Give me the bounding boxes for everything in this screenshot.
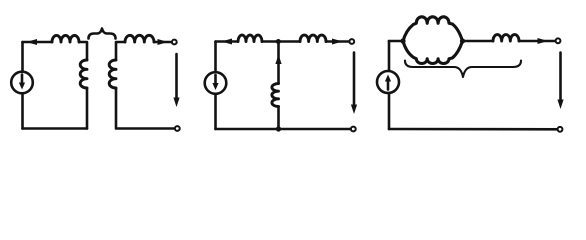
- node B (junction dot, right of parallel pair): [460, 38, 465, 43]
- output arrow (down): [353, 53, 356, 107]
- terminal (bottom right, open circle): [175, 126, 180, 131]
- node (junction dot, top): [276, 39, 281, 44]
- inductor L1-M (top left): [238, 35, 262, 41]
- wire: secondary coil top to top wire of right loop: [116, 42, 125, 60]
- wire: top-right corner of left loop: [79, 42, 87, 60]
- wire: top wire of left loop: [23, 41, 53, 44]
- wire: lens to series coil: [463, 40, 494, 43]
- terminal (top right, open circle): [556, 38, 561, 43]
- output arrow (down): [559, 53, 562, 102]
- terminal (bottom right, open circle): [558, 127, 563, 132]
- inductor (top, right loop): [125, 35, 154, 42]
- wire: top wire to first coil: [216, 40, 239, 43]
- current arrow i1 (pointing left): [26, 39, 37, 45]
- wire: bottom wire of left loop: [23, 127, 88, 130]
- coupling brace M (overbrace between coils): [89, 29, 116, 39]
- inductor (top, left loop): [52, 35, 79, 42]
- wire: left rail top: [388, 41, 391, 71]
- wire: coil1 to coil2 through node: [262, 40, 300, 43]
- inductor L2-M (top right): [300, 35, 326, 41]
- wire: bottom wire: [216, 128, 351, 131]
- current arrow i2 (pointing right): [158, 39, 169, 45]
- inductor (primary vertical coil): [80, 60, 87, 88]
- wire: left rail bottom: [214, 94, 217, 129]
- terminal (top right, open circle): [172, 40, 177, 45]
- wire: left rail bottom: [21, 93, 24, 128]
- inductor M (shunt vertical coil): [272, 84, 279, 107]
- current source I1: [205, 72, 227, 94]
- wire: series coil to top terminal: [519, 40, 555, 43]
- current arrow (pointing right): [538, 38, 549, 44]
- node (junction dot, bottom): [276, 126, 281, 131]
- current source I1: [11, 72, 33, 94]
- terminal (top right, open circle): [349, 39, 354, 44]
- wire: bottom wire: [389, 128, 557, 131]
- wire: left rail bottom: [388, 93, 391, 129]
- wire: shunt branch upper segment: [277, 42, 280, 84]
- wire: top wire to lens node: [389, 40, 403, 43]
- inductor (upper of parallel pair): [403, 17, 463, 41]
- wire: shunt branch lower segment: [277, 107, 280, 130]
- current source I1 (arrow up): [377, 71, 399, 93]
- wire: secondary bottom + bottom wire of right loop: [116, 88, 174, 129]
- current arrow i1 (pointing left): [222, 39, 233, 45]
- wire: primary coil to bottom: [86, 88, 89, 129]
- output arrow (down): [175, 54, 178, 99]
- wire: coil2 to top terminal: [326, 40, 349, 43]
- branch arrow (pointing up): [275, 55, 281, 65]
- wire: left rail top: [214, 42, 217, 73]
- inductor (secondary vertical coil): [109, 60, 116, 88]
- inductor (lower of parallel pair): [403, 41, 463, 63]
- terminal (bottom right, open circle): [351, 127, 356, 132]
- underbrace (equivalent inductance): [405, 61, 521, 78]
- node A (junction dot, left of parallel pair): [400, 38, 405, 43]
- wire: left rail top (source to top wire): [21, 42, 24, 72]
- inductor (series): [493, 35, 519, 41]
- wire: coil to top terminal: [154, 41, 171, 44]
- current arrow i2 (pointing right): [332, 39, 343, 45]
